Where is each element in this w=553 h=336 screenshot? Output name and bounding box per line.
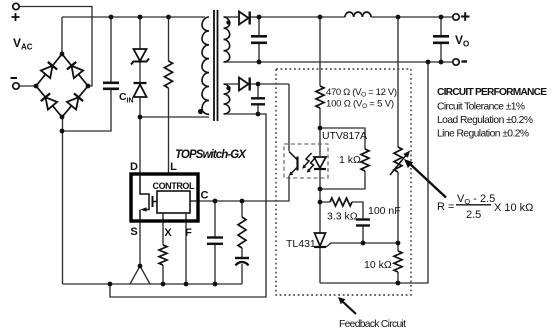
svg-text:1 kΩ: 1 kΩ: [339, 154, 361, 166]
svg-text:S: S: [130, 226, 137, 238]
wire feedback return: [320, 62, 428, 283]
transformer bias winding: [224, 84, 230, 114]
svg-text:VAC: VAC: [13, 36, 33, 52]
wire Vminus rail: [259, 61, 453, 63]
resistor 470 ohm bias: [316, 86, 324, 108]
wire clamp branch: [139, 17, 141, 117]
resistor 3.3k: [330, 198, 352, 206]
capacitor 100nF: [356, 220, 370, 226]
wire 1k bottom: [320, 171, 365, 189]
MOSFET inside U1: [140, 174, 157, 221]
wire opto collector: [288, 84, 290, 151]
wire secondary1 out: [251, 16, 260, 18]
bridge rectifier edges: [36, 54, 88, 117]
opto phototransistor: [289, 152, 298, 175]
svg-text:L: L: [170, 161, 177, 173]
CONTROL block: [157, 191, 190, 213]
polarity dot secondary: [226, 20, 230, 24]
wire secondary top rail: [259, 16, 453, 18]
wire AC+ top: [19, 7, 92, 87]
svg-text:Circuit Tolerance ±1%: Circuit Tolerance ±1%: [437, 102, 525, 113]
TL431 U3: [314, 233, 326, 247]
wire Cin branch: [63, 17, 112, 131]
blocking diode D5: [134, 83, 147, 97]
diode bridge D4 lower-right: [67, 93, 83, 109]
MOSFET source arrow: [141, 207, 147, 212]
label AC plus sign: [12, 13, 20, 21]
zener clamp VR1: [131, 49, 149, 65]
wire bias feed to opto: [258, 83, 289, 85]
terminal Vo plus: [453, 14, 459, 20]
wire bridge+ to rail: [61, 17, 63, 54]
svg-text:D: D: [130, 161, 138, 173]
transformer T1 primary winding: [202, 17, 209, 114]
polarity dot primary: [198, 109, 203, 114]
wire TL431 ref: [326, 243, 398, 247]
potentiometer arrow on R: [390, 154, 407, 175]
wire LED cathode down: [319, 170, 321, 234]
bias diode D7: [239, 78, 250, 91]
resistor R adjustable: [394, 147, 402, 172]
capacitor output C2: [251, 36, 267, 43]
label AC minus sign: [11, 77, 18, 79]
svg-text:10 kΩ: 10 kΩ: [364, 259, 392, 271]
output diode D6: [239, 12, 250, 25]
wire LED top lead: [319, 128, 321, 156]
wire primary top rail: [62, 16, 205, 18]
svg-text:UTV817A: UTV817A: [322, 130, 367, 142]
capacitor Vo: [433, 36, 449, 43]
wire S pin tent: [130, 221, 150, 284]
svg-text:Line Regulation ±0.2%: Line Regulation ±0.2%: [437, 129, 529, 140]
wire 470ohm branch: [319, 17, 321, 128]
opto LED: [314, 157, 326, 169]
terminal Vo minus: [453, 59, 459, 65]
wire Vo cap leads: [440, 17, 442, 62]
wire bias cap leads: [257, 84, 259, 114]
svg-text:R =: R =: [437, 201, 454, 213]
terminal AC minus: [13, 83, 19, 89]
svg-text:CONTROL: CONTROL: [153, 181, 196, 191]
svg-text:VO - 2.5: VO - 2.5: [457, 193, 495, 206]
svg-text:TOPSwitch-GX: TOPSwitch-GX: [175, 149, 247, 161]
wire out cap1 leads: [258, 17, 260, 62]
svg-text:2.5: 2.5: [466, 209, 481, 221]
wire AC-: [19, 85, 36, 87]
wire source rail: [63, 283, 243, 285]
feedback dotted box: [276, 69, 411, 295]
svg-text:F: F: [185, 227, 192, 239]
svg-text:Load Regulation ±0.2%: Load Regulation ±0.2%: [437, 115, 533, 126]
label Vo plus sign: [461, 12, 470, 21]
svg-text:TL431: TL431: [286, 238, 316, 250]
resistor line-sense: [165, 61, 173, 88]
wire 10k leads: [397, 243, 399, 283]
resistor C pin series: [238, 217, 246, 248]
wire X pin: [162, 221, 164, 284]
svg-text:CIRCUIT PERFORMANCE: CIRCUIT PERFORMANCE: [437, 87, 547, 98]
capacitor bias C3: [251, 98, 265, 104]
terminal AC plus: [13, 3, 19, 9]
opto light arrow 1: [304, 153, 312, 167]
svg-text:X 10 kΩ: X 10 kΩ: [494, 202, 533, 214]
wire F pin: [185, 221, 187, 284]
wire 3.3k branch: [320, 202, 363, 243]
resistor 1k: [361, 149, 369, 171]
svg-text:Feedback Circuit: Feedback Circuit: [339, 319, 406, 330]
wire opto emitter to C pin: [198, 176, 289, 202]
TOPSwitch-GX IC box U1: [131, 174, 198, 221]
diode bridge D2 upper-right: [67, 62, 83, 78]
svg-text:100 Ω (VO = 5 V): 100 Ω (VO = 5 V): [326, 99, 394, 111]
wire C pin RC branch: [241, 201, 243, 284]
capacitor C pin polarized: [235, 258, 249, 266]
svg-text:100 nF: 100 nF: [368, 205, 401, 217]
feedback label arrow: [342, 301, 356, 314]
svg-text:VO: VO: [455, 33, 469, 49]
resistor 10k: [394, 251, 402, 272]
diode bridge D1 upper-left: [41, 62, 57, 78]
polarity dot bias: [226, 86, 230, 90]
annotation arrow to R: [409, 163, 446, 198]
wire secondary1 bottom: [224, 61, 260, 63]
svg-text:C: C: [201, 190, 209, 202]
wire TL431 anode: [319, 248, 321, 283]
label Vo minus sign: [462, 60, 468, 62]
capacitor CIN: [103, 83, 119, 89]
svg-text:X: X: [164, 227, 172, 239]
wire node to 1k: [320, 128, 365, 149]
wire bias winding top: [224, 83, 259, 85]
capacitor C pin bypass: [207, 238, 223, 244]
transformer core: [214, 10, 218, 121]
wire bridge- down: [62, 117, 64, 284]
wire R divider top: [397, 17, 399, 243]
optocoupler dashed box U2: [284, 144, 328, 178]
svg-text:CIN: CIN: [119, 91, 134, 105]
wire C pin cap1: [214, 201, 216, 284]
svg-text:3.3 kΩ: 3.3 kΩ: [327, 211, 358, 223]
wire bias return: [110, 114, 266, 297]
wire drain node: [140, 117, 209, 174]
wire secondary1 top: [224, 16, 240, 18]
resistor X pin: [159, 245, 167, 265]
CONTROL connections: [163, 201, 198, 221]
opto light arrow 2: [308, 157, 316, 171]
diode bridge D3 lower-left: [41, 93, 57, 109]
wire L-resistor branch: [168, 17, 170, 174]
svg-text:470 Ω (VO = 12 V): 470 Ω (VO = 12 V): [326, 87, 397, 99]
inductor L1: [345, 12, 371, 17]
wire bias winding bottom: [224, 113, 259, 115]
transformer secondary winding: [224, 17, 230, 62]
